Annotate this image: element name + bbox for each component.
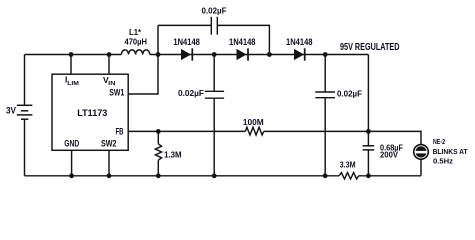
svg-text:3.3M: 3.3M — [340, 160, 356, 170]
svg-text:1.3M: 1.3M — [164, 149, 182, 159]
svg-text:470µH: 470µH — [125, 37, 148, 47]
svg-text:SW1: SW1 — [109, 88, 124, 98]
svg-text:IN: IN — [108, 81, 115, 87]
svg-text:FB: FB — [116, 126, 124, 136]
svg-text:LIM: LIM — [67, 81, 79, 87]
svg-text:100M: 100M — [243, 117, 264, 127]
svg-text:1N4148: 1N4148 — [173, 37, 200, 47]
svg-text:0.02µF: 0.02µF — [337, 89, 362, 99]
svg-text:0.02µF: 0.02µF — [202, 6, 227, 16]
svg-text:LT1173: LT1173 — [77, 108, 107, 118]
svg-text:200V: 200V — [380, 150, 398, 160]
svg-text:95V REGULATED: 95V REGULATED — [340, 42, 400, 53]
svg-text:1N4148: 1N4148 — [286, 37, 313, 47]
svg-text:0.02µF: 0.02µF — [178, 88, 204, 98]
svg-text:3V: 3V — [6, 106, 17, 116]
svg-text:0.5Hz: 0.5Hz — [433, 157, 453, 166]
svg-text:NE-2: NE-2 — [433, 137, 445, 146]
svg-text:1N4148: 1N4148 — [229, 37, 256, 47]
svg-text:BLINKS AT: BLINKS AT — [433, 147, 468, 156]
svg-text:GND: GND — [64, 139, 79, 149]
svg-text:L1*: L1* — [129, 27, 142, 37]
svg-text:SW2: SW2 — [101, 139, 117, 149]
